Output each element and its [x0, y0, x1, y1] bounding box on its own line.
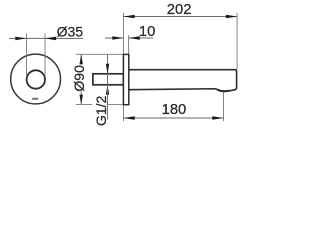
svg-text:Ø35: Ø35 [57, 23, 84, 39]
svg-text:10: 10 [139, 24, 155, 40]
dim 180: left arrowhead [124, 116, 135, 120]
dim 10: right extension line [128, 35, 130, 54]
dim 180: dimension line [124, 117, 224, 119]
thread stub G1/2 body [93, 74, 124, 85]
dim Ø35: dimension line [9, 37, 83, 39]
dim 10: left arrowhead (outside) [112, 36, 123, 40]
dim Ø90: top extension line [76, 53, 124, 55]
dim 202: right extension line [236, 13, 238, 69]
callout G1/2: line through stub [107, 74, 109, 85]
dim 180: right extension line [223, 92, 225, 121]
dim Ø90: dimension line lower segment [80, 91, 82, 104]
dim Ø35: left extension line [26, 34, 28, 77]
dim 202: right arrowhead [226, 15, 237, 19]
dim 10: dimension line right tail [129, 37, 154, 39]
dim Ø90: up arrowhead [80, 54, 83, 64]
dim 202: left arrowhead [124, 15, 135, 19]
dim 10: right arrowhead (outside) [129, 36, 140, 40]
side view: wall plane / shared extension line [123, 13, 125, 121]
svg-text:180: 180 [162, 102, 187, 118]
dim 202: dimension line [124, 16, 238, 18]
dim Ø35: right extension line [44, 34, 46, 77]
spout outlet lip thickening [217, 90, 229, 92]
callout G1/2: up arrowhead at stub bottom [106, 85, 109, 95]
svg-text:G1/2: G1/2 [93, 95, 109, 126]
callout G1/2: line upper segment with down arrowhead at stub top [107, 54, 109, 73]
svg-text:Ø90: Ø90 [71, 65, 87, 92]
dim Ø35: right arrowhead [45, 37, 56, 41]
spout body outline [129, 70, 237, 92]
dim Ø90: bottom extension line right segment [108, 104, 124, 106]
callout G1/2: down arrowhead [106, 64, 109, 74]
dim Ø35: left arrowhead [15, 37, 26, 41]
front view: spout hub inner circle Ø35 [27, 70, 45, 88]
KEUCO logo mark [32, 98, 38, 100]
wall flange plate (side view) [123, 54, 128, 104]
dim 180: right arrowhead [212, 116, 223, 120]
dim Ø90: dimension line upper segment [80, 54, 82, 62]
callout G1/2: line lower segment [107, 85, 109, 120]
dim Ø90: down arrowhead [80, 95, 83, 105]
dim 10: dimension line left tail [105, 37, 124, 39]
dim Ø90: bottom extension line left segment [76, 104, 92, 106]
svg-text:202: 202 [167, 2, 192, 18]
front view: flange outer circle Ø90 [11, 54, 61, 104]
